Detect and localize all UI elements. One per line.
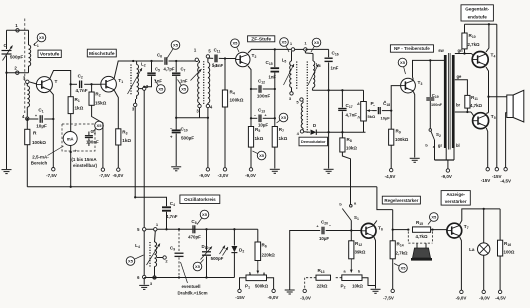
svg-text:C17: C17: [346, 103, 353, 109]
node meter mA: [63, 132, 77, 146]
node X5 marker C6: [168, 47, 175, 58]
wire (osc node row): [144, 228, 258, 230]
transistor T2: [236, 52, 250, 66]
svg-text:-9,0V: -9,0V: [199, 173, 210, 178]
svg-text:P1: P1: [245, 284, 250, 290]
svg-text:NF - Treiberstufe: NF - Treiberstufe: [394, 46, 430, 51]
wire: [26, 145, 28, 187]
node coupling arrows: [220, 246, 226, 255]
node earphone: [416, 243, 418, 248]
node stage box NF-Treiberstufe: [390, 45, 433, 52]
svg-text:D10: D10: [202, 244, 209, 250]
diode D2: [233, 229, 235, 245]
node junction: [132, 60, 134, 62]
inductor L4: [154, 231, 157, 242]
svg-text:Oszillatorkreis: Oszillatorkreis: [184, 197, 216, 202]
svg-text:100nF: 100nF: [431, 103, 443, 107]
capacitor C2 4,7nF: [71, 83, 77, 85]
node stage box Vorstufe: [38, 50, 61, 57]
node terminal 4 (L3): [206, 104, 209, 107]
resistor R1 1kΩ: [70, 84, 72, 96]
svg-text:R8: R8: [347, 137, 352, 143]
capacitor C11 1,5nF: [208, 57, 213, 59]
diode D: [311, 130, 317, 135]
svg-text:C12: C12: [258, 79, 265, 85]
svg-text:1nF: 1nF: [331, 66, 339, 71]
svg-text:-4,5V: -4,5V: [385, 174, 396, 179]
svg-text:L2: L2: [141, 62, 146, 68]
resistor R4 100kΩ: [224, 59, 226, 91]
resistor R9 100kΩ: [390, 111, 392, 130]
svg-text:-7,5V: -7,5V: [383, 296, 394, 301]
svg-text:1kΩ: 1kΩ: [75, 106, 84, 111]
node junction: [483, 208, 485, 210]
node terminal 3 (L2): [135, 99, 137, 103]
svg-text:T4: T4: [491, 53, 496, 59]
svg-text:R4: R4: [230, 90, 235, 96]
svg-text:C8: C8: [191, 219, 196, 225]
svg-text:500pF: 500pF: [10, 55, 23, 60]
node terminal 3: [26, 80, 29, 83]
wire (T2 emitter): [248, 66, 251, 127]
svg-text:X5: X5: [97, 123, 103, 128]
wire: [392, 210, 394, 241]
wire (T7 emitter): [460, 237, 462, 290]
wire: [483, 255, 485, 290]
svg-text:bl: bl: [456, 143, 460, 148]
svg-text:X5: X5: [173, 43, 179, 48]
node X5 marker C8: [197, 216, 203, 224]
svg-text:10kΩ: 10kΩ: [346, 146, 357, 151]
svg-text:100kΩ: 100kΩ: [230, 98, 244, 103]
wire (T1 collector): [114, 61, 133, 78]
capacitor C17 4,7nF: [341, 90, 343, 107]
resistor R8 10kΩ: [341, 132, 343, 138]
inductor L6: [305, 51, 313, 61]
node terminal 5 (L3): [206, 55, 209, 58]
wire: [483, 209, 485, 243]
wire (T7 collector): [460, 209, 500, 224]
capacitor C7 1nF: [175, 60, 177, 62]
wire: [6, 30, 8, 49]
wire: [143, 279, 145, 285]
svg-text:C6: C6: [157, 53, 162, 59]
wire: [26, 120, 28, 129]
svg-text:mA: mA: [67, 136, 74, 141]
node terminal (L5 top): [291, 48, 294, 51]
node X5 marker L4: [132, 255, 143, 260]
svg-text:(1 bis 15mA: (1 bis 15mA: [71, 157, 97, 162]
node terminal -9,0V: [460, 290, 463, 293]
capacitor C10 500µF: [175, 118, 177, 130]
svg-text:R3: R3: [122, 130, 127, 136]
wire: [29, 82, 37, 84]
svg-text:X5: X5: [400, 60, 406, 65]
node terminal -15V: [495, 168, 498, 171]
node junction: [250, 88, 252, 90]
node junction: [52, 118, 54, 120]
node X5 marker L1: [34, 39, 41, 45]
node junction: [224, 57, 226, 59]
svg-text:X5: X5: [401, 266, 407, 271]
svg-text:4,7nF: 4,7nF: [346, 113, 358, 118]
node antenna terminal 2: [16, 71, 19, 74]
resistor R5 1kΩ: [248, 127, 253, 148]
svg-text:X5: X5: [195, 264, 201, 269]
wire: [499, 209, 501, 240]
wire: [496, 24, 498, 167]
node terminal (L6 top): [304, 48, 307, 51]
wire: [70, 146, 72, 187]
wire (osc bottom rail): [144, 277, 234, 279]
potentiometer P 5kΩ: [363, 90, 365, 101]
svg-text:500pF: 500pF: [211, 256, 224, 261]
wire: [135, 107, 166, 207]
node switch S2: [429, 129, 432, 132]
svg-text:X5: X5: [39, 35, 45, 40]
capacitor C4 4,7nF: [162, 206, 171, 208]
wire (T4 emitter / T5 collector): [486, 67, 489, 113]
ground: [289, 289, 291, 291]
svg-text:-9,0V: -9,0V: [113, 173, 124, 178]
node terminal 5: [143, 228, 146, 231]
svg-text:R1: R1: [75, 97, 80, 103]
wire (T emitter): [50, 91, 53, 168]
node terminal -3,0V: [303, 289, 306, 292]
svg-text:R14: R14: [397, 242, 404, 248]
node terminal -7,5V: [101, 168, 104, 171]
wire (stage1 rail): [133, 60, 151, 62]
potentiometer P2 10kΩ: [342, 275, 362, 281]
capacitor D10 500pF (tuning): [206, 229, 208, 251]
wire: [499, 256, 501, 290]
svg-text:100nF: 100nF: [86, 140, 99, 145]
node terminal 6: [143, 275, 146, 278]
node stage box Oszillatorkreis: [180, 195, 220, 204]
node terminal -15V: [238, 289, 241, 292]
transistor T7: [447, 223, 462, 238]
capacitor C 500pF (tuning): [2, 50, 12, 52]
wire: [175, 60, 197, 62]
svg-text:4,7kΩ: 4,7kΩ: [470, 103, 483, 108]
inductor L1: [28, 30, 30, 45]
wire: [447, 160, 449, 169]
inductor L6 core: [306, 62, 308, 134]
node switch S1: [350, 205, 353, 208]
svg-text:1kΩ: 1kΩ: [255, 136, 264, 141]
node X5 marker C7: [178, 80, 183, 88]
svg-text:2,7kΩ: 2,7kΩ: [468, 42, 481, 47]
wire: [390, 145, 392, 168]
svg-text:endstufe: endstufe: [468, 15, 488, 20]
svg-text:Mischstufe: Mischstufe: [89, 51, 115, 57]
wire (speaker top): [489, 96, 507, 98]
svg-text:R10: R10: [469, 33, 476, 39]
svg-text:R2: R2: [95, 92, 100, 98]
wire (chassis bus): [27, 186, 377, 188]
ground: [375, 288, 377, 290]
svg-text:C11: C11: [214, 48, 221, 54]
node terminal -4,5V: [498, 290, 501, 293]
resistor R16 100Ω: [498, 240, 503, 256]
svg-text:C16: C16: [332, 51, 339, 57]
wire: [176, 117, 208, 119]
svg-text:1,5nF: 1,5nF: [212, 63, 224, 68]
svg-text:X5: X5: [232, 41, 238, 46]
node tuning arrow: [128, 68, 143, 94]
svg-text:1nF: 1nF: [180, 79, 188, 84]
svg-text:10µF: 10µF: [381, 116, 391, 121]
wire: [350, 221, 352, 231]
transistor T: [36, 77, 52, 93]
svg-text:R12: R12: [355, 241, 362, 247]
svg-text:C5: C5: [155, 67, 160, 73]
wire: [316, 131, 365, 133]
svg-text:X5: X5: [181, 87, 187, 92]
wire: [207, 118, 209, 168]
svg-text:S1: S1: [354, 215, 359, 221]
svg-text:C1: C1: [38, 108, 43, 114]
wire: [453, 148, 455, 160]
svg-text:Drahtlk.≈15cm: Drahtlk.≈15cm: [178, 291, 208, 296]
svg-text:S2: S2: [436, 132, 441, 138]
wire (T4 collector): [486, 24, 489, 52]
svg-text:-9,0V: -9,0V: [441, 174, 452, 179]
node transformer secondary: [452, 55, 455, 148]
transistor T5: [473, 113, 489, 129]
wire: [362, 278, 376, 286]
svg-text:T6: T6: [378, 226, 383, 232]
node terminal 4 (demod coil): [300, 130, 303, 133]
svg-text:Anzeige-: Anzeige-: [446, 192, 465, 197]
resistor R6 220kΩ: [255, 242, 261, 261]
svg-text:R11: R11: [471, 95, 478, 101]
inductor L5: [292, 51, 294, 53]
inductor L3 core: [203, 61, 205, 104]
wire (bus drop to T6): [377, 187, 393, 210]
wire: [224, 107, 226, 168]
svg-text:100nF: 100nF: [257, 94, 270, 99]
node potentiometer P2 wiper: [350, 259, 352, 273]
svg-text:Vorstufe: Vorstufe: [40, 52, 60, 58]
node X5 marker D10: [199, 260, 204, 266]
node terminal -9,0V: [446, 169, 449, 172]
node terminal -3,0V: [223, 168, 226, 171]
svg-text:Gegentakt-: Gegentakt-: [465, 7, 489, 12]
wire: [391, 86, 401, 111]
wire (speaker bottom): [506, 113, 507, 168]
resistor R10 2,7kΩ: [464, 24, 466, 33]
svg-text:22kΩ: 22kΩ: [317, 284, 328, 289]
transistor T1: [101, 76, 117, 92]
wire: [117, 145, 119, 168]
node tuning arrow: [147, 244, 161, 266]
wire (T collector): [50, 71, 71, 85]
capacitor C18 10µF: [373, 110, 377, 112]
wire: [328, 90, 330, 132]
svg-text:500µF: 500µF: [181, 136, 194, 141]
svg-text:La: La: [469, 247, 475, 252]
inductor demodulator winding: [302, 101, 304, 103]
capacitor C20 10µF: [321, 227, 323, 235]
svg-text:R15: R15: [416, 220, 423, 226]
svg-text:1kΩ: 1kΩ: [279, 136, 288, 141]
node terminal -9,0V: [249, 168, 252, 171]
node speaker: [507, 95, 513, 118]
wire: [240, 278, 247, 289]
node earphone (dashed option): [407, 231, 409, 243]
svg-text:X5: X5: [282, 40, 288, 45]
wire (ZF rail): [293, 48, 305, 50]
resistor R 100kΩ: [25, 129, 30, 144]
wire: [143, 231, 145, 275]
wire (T3 emitter): [413, 92, 414, 158]
ground: [274, 168, 276, 170]
node junction: [274, 48, 276, 50]
wire: [464, 49, 466, 54]
svg-text:100kΩ: 100kΩ: [395, 137, 409, 142]
ground: [328, 168, 330, 170]
node potentiometer P1 wiper: [257, 261, 259, 274]
node terminal 5 (demod coil): [300, 98, 303, 101]
wire (supply top): [465, 23, 497, 25]
svg-text:T: T: [55, 79, 58, 85]
wire (T6 collector): [374, 221, 377, 225]
node X5 marker T2: [236, 45, 239, 52]
svg-text:-4,5V: -4,5V: [495, 296, 506, 301]
wire (T6 emitter): [374, 237, 376, 289]
node junction: [70, 83, 72, 85]
inductor L1 secondary: [26, 84, 28, 87]
wire (T5 collector): [486, 113, 488, 114]
node X5 marker R5: [253, 151, 260, 155]
svg-text:100Ω: 100Ω: [504, 250, 515, 255]
svg-text:T5: T5: [491, 114, 496, 120]
svg-text:R: R: [33, 131, 37, 137]
capacitor C1 10µF: [29, 118, 38, 120]
svg-text:1nF: 1nF: [269, 75, 277, 80]
node X5 marker L5: [285, 44, 289, 52]
wire: [7, 29, 29, 31]
wire: [274, 147, 276, 168]
node terminal 3 (L3): [198, 104, 201, 107]
svg-text:T2: T2: [252, 53, 257, 59]
svg-text:220kΩ: 220kΩ: [262, 253, 276, 258]
svg-text:L4: L4: [135, 243, 140, 249]
node junction: [487, 96, 489, 98]
svg-text:5kΩ: 5kΩ: [368, 114, 376, 119]
svg-text:C2: C2: [78, 74, 83, 80]
wire: [92, 83, 102, 85]
transistor T4: [472, 52, 488, 68]
svg-text:C4: C4: [170, 201, 175, 207]
capacitor C12 100nF: [251, 88, 257, 90]
node terminal 1 (L4): [154, 228, 157, 231]
capacitor C9 (dashed option): [178, 229, 180, 252]
svg-text:-9,0V: -9,0V: [245, 173, 256, 178]
node terminal 3 (L5): [290, 92, 293, 95]
svg-text:eventuell: eventuell: [181, 284, 200, 289]
wire: [257, 229, 259, 242]
wire (br tap): [455, 111, 471, 113]
wire: [445, 148, 447, 160]
svg-text:-4,5V: -4,5V: [500, 178, 511, 183]
node stage box Mischstufe: [87, 49, 116, 57]
svg-text:C: C: [4, 43, 8, 49]
svg-text:X5: X5: [158, 87, 164, 92]
svg-text:2,7kΩ: 2,7kΩ: [396, 251, 409, 256]
wire (gn tap): [455, 53, 472, 55]
resistor R12 39kΩ: [350, 231, 352, 241]
svg-text:10µF: 10µF: [319, 236, 329, 241]
inductor L3 left winding: [197, 62, 200, 63]
inductor L4 core: [149, 242, 151, 267]
resistor R14 2,7kΩ: [390, 241, 395, 259]
svg-text:-3,0V: -3,0V: [218, 173, 229, 178]
svg-text:-9,0V: -9,0V: [456, 296, 467, 301]
node terminal 4: [26, 117, 29, 120]
wire: [143, 90, 145, 227]
svg-text:-3,0V: -3,0V: [300, 296, 311, 301]
svg-text:X5: X5: [431, 215, 437, 220]
svg-text:X5: X5: [281, 115, 287, 120]
node tuning arrow: [284, 64, 295, 85]
svg-text:C13: C13: [258, 108, 265, 114]
svg-text:+: +: [74, 149, 77, 154]
capacitor C6 4,7pF: [152, 60, 164, 62]
wire: [70, 114, 72, 132]
node terminal -9,0V: [206, 168, 209, 171]
svg-text:ZF-Stufe: ZF-Stufe: [251, 37, 271, 43]
inductor L3 right winding: [207, 58, 209, 62]
svg-text:+: +: [170, 135, 173, 140]
svg-text:Regelverstärker: Regelverstärker: [384, 198, 418, 203]
wire: [7, 72, 29, 74]
capacitor C13 10µF: [251, 117, 257, 119]
wire: [250, 147, 252, 168]
svg-text:1kΩ: 1kΩ: [122, 138, 131, 143]
ground: [175, 166, 177, 168]
node tuning arrow: [191, 69, 202, 81]
svg-text:R9: R9: [396, 129, 401, 135]
svg-text:10kΩ: 10kΩ: [352, 284, 363, 289]
inductor L5 core: [296, 62, 298, 90]
wire: [225, 58, 236, 60]
wire: [328, 132, 330, 168]
svg-text:-15V: -15V: [235, 295, 245, 300]
node X5 marker R14: [394, 264, 401, 268]
resistor R2 15kΩ: [91, 84, 93, 92]
svg-text:A: A: [356, 102, 360, 106]
ground: [414, 157, 416, 159]
inductor L2 core: [130, 65, 132, 96]
svg-text:100kΩ: 100kΩ: [32, 140, 46, 145]
wire: [431, 229, 447, 231]
potentiometer P1 500kΩ: [246, 275, 267, 281]
node terminal 3 (L4): [154, 271, 156, 276]
node stage box ZF-Stufe: [248, 36, 275, 42]
svg-text:C15: C15: [266, 60, 273, 66]
node lamp La: [478, 243, 490, 255]
wire: [393, 229, 409, 231]
svg-text:einstellbar): einstellbar): [73, 163, 98, 168]
wire (T1 emitter): [114, 90, 118, 129]
svg-text:L1: L1: [34, 42, 39, 48]
transistor T6: [361, 223, 376, 238]
node X5 marker C5: [155, 80, 160, 88]
node terminal 2 (L2 tap): [139, 88, 144, 90]
svg-text:-7,5V: -7,5V: [46, 173, 57, 178]
